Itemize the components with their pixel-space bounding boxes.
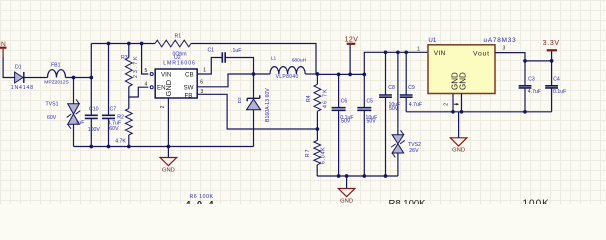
svg-text:C9: C9 xyxy=(408,85,415,91)
diode D1 xyxy=(15,72,23,83)
svg-text:VIN: VIN xyxy=(434,50,446,57)
svg-text:Vout: Vout xyxy=(473,50,490,57)
svg-text:2: 2 xyxy=(444,103,450,106)
wire L1 to out node xyxy=(305,73,317,75)
junction TVS1 node xyxy=(72,76,76,80)
junction gnd rail R2 xyxy=(127,145,131,149)
out row 3v3 xyxy=(525,60,552,62)
junction rail3 C3 xyxy=(523,110,527,114)
resistor R2 xyxy=(125,109,132,136)
svg-text:R1: R1 xyxy=(175,34,182,40)
wire C10 column xyxy=(90,78,92,116)
svg-text:4 0 4: 4 0 4 xyxy=(186,200,216,205)
svg-text:50V: 50V xyxy=(367,119,377,125)
svg-text:1uF: 1uF xyxy=(76,120,85,126)
resistor R3 xyxy=(125,58,132,87)
svg-text:4.7uF: 4.7uF xyxy=(528,89,541,95)
gnd rail left xyxy=(74,146,254,148)
svg-text:5: 5 xyxy=(145,68,148,74)
junction bus node xyxy=(89,76,93,80)
wire SW node to L1 xyxy=(254,73,271,75)
wire pin1 to C1 xyxy=(197,58,222,75)
svg-text:C5: C5 xyxy=(366,98,373,104)
svg-text:680uH: 680uH xyxy=(292,58,307,64)
op-amp U2 LMR16006 box xyxy=(155,69,197,98)
junction rail2 gnd xyxy=(345,174,349,178)
svg-text:C7: C7 xyxy=(110,106,117,112)
junction rail2 C8 xyxy=(384,174,388,178)
top rail xyxy=(91,43,155,45)
svg-text:C1: C1 xyxy=(208,47,215,53)
U2 pin 4 bubble xyxy=(150,86,153,89)
wire riser to 52 rail xyxy=(364,52,428,74)
svg-text:2: 2 xyxy=(160,105,166,108)
junction 12V stem xyxy=(348,73,352,77)
svg-text:26V: 26V xyxy=(409,148,419,154)
capacitor C1 xyxy=(222,52,225,63)
svg-text:GND: GND xyxy=(162,167,175,173)
junction C9 top xyxy=(404,50,408,54)
wire D2 to gnd rail xyxy=(253,110,255,147)
wire C9 column xyxy=(405,52,407,95)
svg-text:VLP8040: VLP8040 xyxy=(276,74,299,80)
wire C6 column xyxy=(338,74,340,107)
svg-text:FB: FB xyxy=(185,93,193,100)
resistor R4 xyxy=(314,84,321,111)
svg-text:3: 3 xyxy=(503,45,506,51)
junction gnd rail U2pin2 xyxy=(167,145,171,149)
tvs TVS2 xyxy=(392,135,404,144)
capacitor C5 xyxy=(357,108,371,111)
junction C7 top xyxy=(107,42,111,46)
svg-text:B160A-13 60V: B160A-13 60V xyxy=(265,88,271,122)
svg-text:C4: C4 xyxy=(553,77,560,83)
junction gnd rail C7 xyxy=(107,145,111,149)
svg-text:100K: 100K xyxy=(523,199,550,205)
svg-text:46.7K: 46.7K xyxy=(322,88,328,108)
svg-text:23.7K: 23.7K xyxy=(133,54,139,78)
svg-text:FB1: FB1 xyxy=(51,63,61,69)
wire R1 to 12V corner xyxy=(191,44,316,75)
junction TVS2 top xyxy=(396,50,400,54)
ferrite bead FB1 xyxy=(48,70,66,78)
wire C8 column xyxy=(385,52,387,95)
junction VIN drop xyxy=(140,42,144,46)
wire C1 to SW column xyxy=(225,58,253,75)
resistor R7 xyxy=(314,141,321,165)
svg-text:100V: 100V xyxy=(88,127,101,133)
svg-text:D1: D1 xyxy=(15,64,22,70)
svg-text:0.1uF: 0.1uF xyxy=(553,89,566,95)
svg-text:GND: GND xyxy=(164,79,173,96)
junction rail3 pin4 xyxy=(460,110,464,114)
svg-text:TVS1: TVS1 xyxy=(46,101,59,107)
wire riser to top rail xyxy=(90,44,92,78)
regulator U1 box xyxy=(428,45,495,94)
svg-text:6: 6 xyxy=(200,79,203,85)
junction gnd rail C10 xyxy=(89,145,93,149)
wire down to TVS1 xyxy=(73,78,75,104)
wire C5 column xyxy=(363,74,365,107)
wire C4 column xyxy=(551,61,553,86)
svg-text:GND: GND xyxy=(340,198,353,204)
svg-text:4.7K: 4.7K xyxy=(115,139,126,145)
wire R2 column xyxy=(128,97,130,109)
capacitor C9 xyxy=(400,95,413,97)
svg-text:4: 4 xyxy=(145,82,148,88)
svg-text:3.3V: 3.3V xyxy=(543,40,560,47)
svg-text:4.7uF: 4.7uF xyxy=(409,102,422,108)
inductor L1 xyxy=(270,67,305,74)
wire R7 to gnd rail2 xyxy=(316,165,318,176)
svg-text:U1: U1 xyxy=(428,37,436,44)
svg-text:C3: C3 xyxy=(528,77,535,83)
wire D1 to FB1 xyxy=(24,77,48,79)
capacitor C7 xyxy=(102,115,115,118)
U1 pin 3 wire xyxy=(495,53,525,61)
resistor R1 xyxy=(155,40,191,47)
svg-text:VIN: VIN xyxy=(161,72,171,79)
wire IN to D1 xyxy=(3,57,15,78)
wire R4 to FB node xyxy=(316,111,318,140)
capacitor C10 xyxy=(85,115,98,118)
ground GND2 xyxy=(458,112,460,138)
wire FB1 to node xyxy=(66,77,92,79)
junction SW node xyxy=(252,72,256,76)
U2 pin 5 bubble xyxy=(150,73,153,76)
wire TVS1 to gnd rail xyxy=(73,124,75,146)
svg-text:1: 1 xyxy=(417,46,420,52)
svg-text:uA78M33: uA78M33 xyxy=(484,37,517,44)
svg-text:CB: CB xyxy=(185,72,194,79)
svg-text:R2: R2 xyxy=(117,114,124,120)
junction rail3 pin2 xyxy=(451,110,455,114)
svg-text:1N4148: 1N4148 xyxy=(11,85,34,91)
wire C7 column xyxy=(108,44,110,116)
wire C3 column xyxy=(524,61,526,86)
junction FB node xyxy=(316,127,320,131)
capacitor C4 xyxy=(545,86,558,88)
ground GND3 xyxy=(346,176,348,189)
svg-text:50V: 50V xyxy=(341,119,351,125)
svg-text:R3: R3 xyxy=(121,55,128,61)
U1 gnd pins xyxy=(452,94,454,112)
svg-text:R4: R4 xyxy=(306,95,312,102)
svg-text:SW: SW xyxy=(184,84,194,91)
svg-text:LMR16006: LMR16006 xyxy=(163,60,196,66)
svg-text:GND: GND xyxy=(459,72,468,90)
junction rail2 C6 xyxy=(337,174,341,178)
svg-text:60V: 60V xyxy=(47,115,57,121)
gnd rail2 xyxy=(317,175,398,177)
svg-text:1: 1 xyxy=(203,67,206,73)
wire R3 to EN node xyxy=(129,87,149,98)
gnd rail3 xyxy=(406,111,551,113)
junction R3 top xyxy=(127,42,131,46)
wire R3 top lead xyxy=(128,44,130,58)
junction out node xyxy=(316,72,320,76)
U2 pin 2 wire xyxy=(167,98,169,147)
wire SW down to D2 xyxy=(253,74,255,98)
capacitor C8 xyxy=(379,95,392,97)
wire R4 top lead xyxy=(316,74,318,84)
svg-text:C10: C10 xyxy=(89,106,99,112)
svg-text:GND: GND xyxy=(452,148,465,154)
junction C5 corner xyxy=(362,73,366,77)
svg-text:C8: C8 xyxy=(388,85,395,91)
capacitor C3 xyxy=(519,86,532,88)
svg-text:C6: C6 xyxy=(341,98,348,104)
junction rail2 C5 xyxy=(362,174,366,178)
svg-text:6.04K: 6.04K xyxy=(321,146,327,164)
wire out row xyxy=(317,73,364,75)
capacitor C6 xyxy=(332,108,346,111)
svg-text:12V: 12V xyxy=(345,37,359,44)
diode D2 schottky xyxy=(247,95,260,101)
junction 3v3 a xyxy=(523,59,527,63)
junction C8 top xyxy=(384,50,388,54)
ground GND1 xyxy=(167,147,169,158)
svg-text:R7: R7 xyxy=(305,148,311,157)
svg-text:60V: 60V xyxy=(109,126,119,132)
svg-text:R8 100K: R8 100K xyxy=(389,199,427,205)
junction C6 top xyxy=(337,73,341,77)
wire pin3 FB xyxy=(197,94,317,129)
svg-text:D2: D2 xyxy=(237,97,242,103)
tvs TVS1 xyxy=(68,104,80,114)
wire TVS2 column upper xyxy=(397,52,399,134)
svg-text:.1uF: .1uF xyxy=(231,48,241,54)
wire VIN drop to pin5 xyxy=(142,44,149,75)
junction 3v3 b xyxy=(550,59,554,63)
svg-text:L1: L1 xyxy=(271,56,277,62)
wire TVS2 to gnd rail2 xyxy=(397,153,399,176)
svg-text:MPZ2012S: MPZ2012S xyxy=(44,80,69,86)
wire pin6 SW xyxy=(197,74,253,87)
